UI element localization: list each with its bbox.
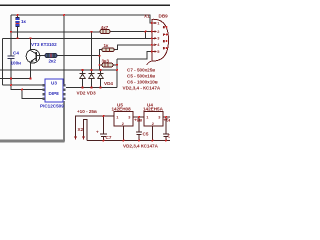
svg-text:VD2,3,4 - КС147А: VD2,3,4 - КС147А <box>123 85 161 90</box>
svg-text:+5в: +5в <box>164 118 171 123</box>
svg-text:7: 7 <box>163 32 165 37</box>
svg-text:X2: X2 <box>78 127 84 132</box>
svg-text:PIC12C509: PIC12C509 <box>40 104 64 109</box>
svg-text:VD4: VD4 <box>104 81 113 86</box>
svg-text:C5 - 500х16в: C5 - 500х16в <box>127 73 155 78</box>
svg-text:2к2: 2к2 <box>49 59 57 64</box>
svg-text:X1: X1 <box>144 14 150 19</box>
svg-text:142ЕН08: 142ЕН08 <box>112 107 132 112</box>
svg-text:142ЕН5А: 142ЕН5А <box>143 107 164 112</box>
svg-text:C6 - 1000х10в: C6 - 1000х10в <box>127 79 158 84</box>
svg-text:+: + <box>96 130 99 135</box>
svg-text:C7: C7 <box>106 135 112 140</box>
svg-text:3к3: 3к3 <box>102 58 110 63</box>
svg-text:C7 - 500х25в: C7 - 500х25в <box>127 67 155 72</box>
svg-text:C4: C4 <box>13 51 19 56</box>
svg-text:VD2,3,4 КС147А: VD2,3,4 КС147А <box>123 144 159 149</box>
svg-text:C5: C5 <box>143 132 149 137</box>
svg-text:VT3 КТ3102: VT3 КТ3102 <box>31 42 57 47</box>
svg-text:1к: 1к <box>104 43 110 48</box>
svg-text:DIP8: DIP8 <box>49 91 60 96</box>
svg-text:+10 - 25в: +10 - 25в <box>77 109 97 114</box>
svg-text:1к: 1к <box>21 19 27 24</box>
svg-text:C6: C6 <box>168 134 171 139</box>
svg-text:4к7: 4к7 <box>101 25 109 30</box>
svg-text:DB9: DB9 <box>159 14 169 19</box>
svg-text:VD2 VD3: VD2 VD3 <box>77 91 97 96</box>
svg-text:U3: U3 <box>51 81 57 86</box>
svg-text:+9в: +9в <box>134 118 142 123</box>
svg-text:100н: 100н <box>11 61 22 66</box>
